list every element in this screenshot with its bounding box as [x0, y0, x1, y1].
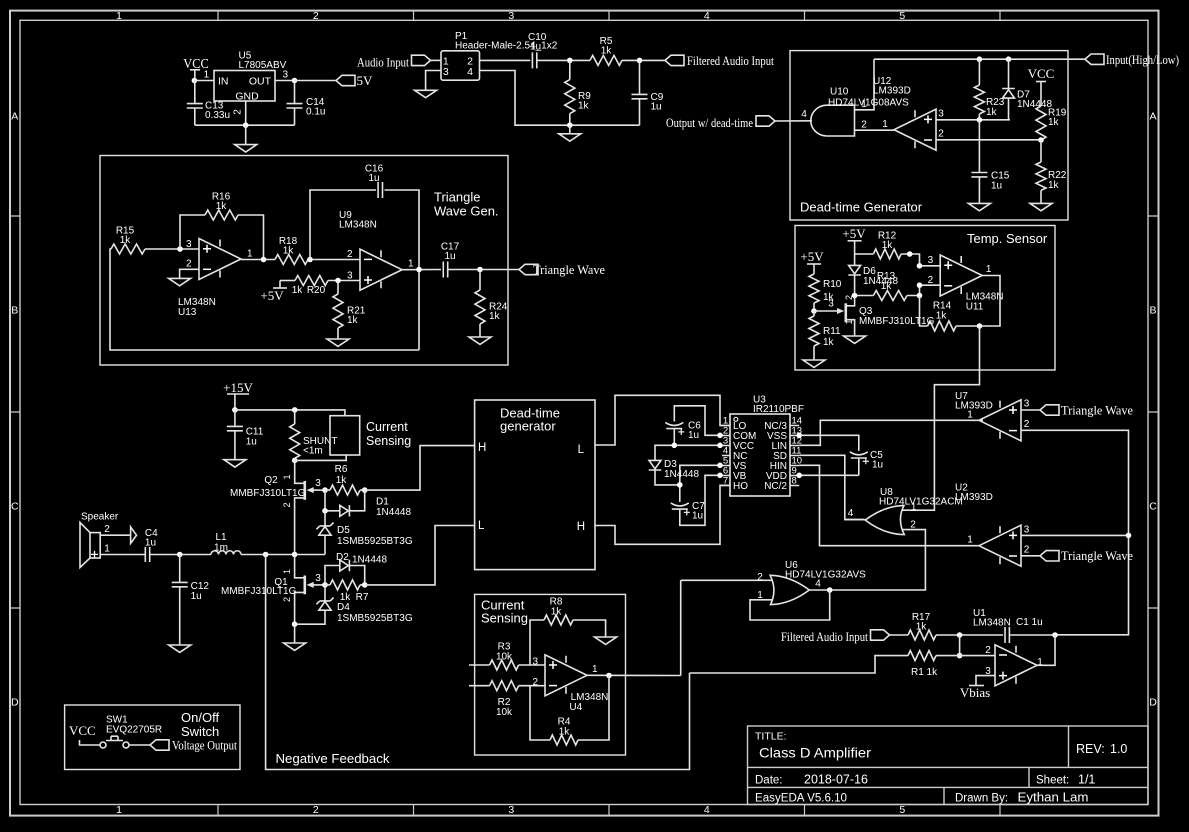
node R23 bottom junction: [977, 117, 983, 123]
svg-text:2: 2: [928, 275, 934, 286]
svg-text:A: A: [11, 111, 18, 123]
block box Triangle Wave Gen: [100, 156, 508, 366]
svg-text:1: 1: [104, 544, 110, 555]
svg-text:D5: D5: [337, 525, 350, 536]
node D1 branch junction: [322, 508, 328, 514]
resistor R15: [111, 226, 145, 255]
zener D5 1SMB5925BT3G: [316, 511, 412, 555]
node R6 out junction: [362, 487, 368, 493]
net flag Filtered Audio Input: [665, 53, 774, 68]
resistor SHUNT: [290, 410, 338, 461]
svg-text:1k: 1k: [551, 606, 563, 617]
svg-text:HD74LV1G32ACM: HD74LV1G32ACM: [879, 497, 963, 508]
svg-text:1: 1: [967, 535, 973, 546]
svg-text:1u: 1u: [368, 173, 379, 184]
wire +15V rail: [235, 410, 345, 416]
node U2 pin3 junction: [1126, 533, 1132, 539]
node temp out junction: [977, 323, 983, 329]
svg-text:Triangle Wave: Triangle Wave: [533, 262, 605, 277]
resistor R24: [475, 270, 508, 338]
svg-text:2: 2: [282, 597, 292, 602]
svg-text:1N4448: 1N4448: [664, 469, 699, 480]
wire U8 pin2 to U6 out: [830, 530, 926, 590]
svg-text:Vbias: Vbias: [960, 685, 990, 700]
wire U7 out to U3 LIN: [799, 420, 983, 445]
net flag Triangle Wave: [519, 262, 605, 277]
svg-text:3: 3: [1024, 524, 1030, 535]
power flag VCC: [183, 57, 209, 81]
ic U3 IR2110PBF: [730, 395, 804, 497]
svg-text:1u: 1u: [692, 511, 703, 522]
wire U3 HIN to U2 out: [799, 465, 981, 545]
svg-text:Triangle Wave: Triangle Wave: [1061, 548, 1133, 563]
svg-text:U13: U13: [178, 307, 197, 318]
wire U5 ground bus: [195, 124, 295, 126]
label On/Off Switch: [181, 710, 219, 739]
ground U13: [169, 278, 191, 285]
wire triangle gen feedback loop: [110, 249, 419, 350]
node R13 out junction: [917, 293, 923, 299]
svg-text:1N4448: 1N4448: [352, 555, 387, 566]
svg-text:2018-07-16: 2018-07-16: [804, 773, 868, 787]
node U9 plus junction: [335, 278, 341, 284]
node U3 VCC junction: [717, 443, 723, 449]
svg-text:3: 3: [938, 109, 944, 120]
net flag Output w dead-time: [666, 115, 775, 130]
svg-text:1u: 1u: [191, 591, 202, 602]
net flag 5V: [336, 73, 373, 88]
resistor R6: [330, 464, 360, 495]
svg-text:5: 5: [899, 804, 905, 816]
antenna flag speaker: [131, 527, 137, 543]
wire R15 to U13: [145, 248, 199, 250]
ground R21: [327, 339, 349, 346]
svg-text:4: 4: [801, 109, 807, 120]
wire R1 left to feedback: [690, 656, 909, 673]
capacitor C7: [671, 475, 720, 525]
node shunt bottom junction: [292, 458, 298, 464]
capacitor C17: [441, 242, 460, 278]
svg-text:L: L: [478, 520, 485, 532]
svg-text:1SMB5925BT3G: 1SMB5925BT3G: [337, 536, 413, 547]
node R12 out junction: [907, 251, 913, 257]
node feedback junction: [263, 552, 269, 558]
wire P1 pin2 to C10: [480, 59, 531, 61]
zener D4 1SMB5925BT3G: [295, 585, 413, 624]
svg-text:1k: 1k: [1048, 180, 1060, 191]
svg-text:3: 3: [315, 478, 321, 489]
svg-text:D: D: [11, 697, 19, 709]
node U3 VB junction: [717, 473, 723, 479]
svg-text:Dead-time Generator: Dead-time Generator: [800, 200, 923, 215]
wire node to pin2: [959, 635, 961, 656]
capacitor C1: [1005, 617, 1043, 643]
svg-text:2: 2: [861, 119, 867, 130]
capacitor C15: [971, 120, 1009, 204]
svg-text:+5V: +5V: [800, 249, 824, 264]
svg-text:1k: 1k: [936, 311, 948, 322]
op-amp U13 LM348N: [178, 239, 253, 319]
wire R3 to U4 pin3: [519, 664, 545, 666]
svg-text:3: 3: [928, 255, 934, 266]
resistor R14: [928, 301, 956, 332]
resistor R7: [325, 580, 369, 603]
svg-text:1: 1: [116, 10, 122, 22]
svg-text:Audio Input: Audio Input: [357, 54, 409, 69]
node U9 out junction: [416, 267, 422, 273]
capacitor C11: [227, 410, 264, 460]
svg-text:1k: 1k: [881, 281, 893, 292]
svg-text:U11: U11: [966, 302, 984, 313]
svg-text:1: 1: [844, 319, 854, 324]
svg-text:generator: generator: [500, 419, 556, 434]
capacitor C6: [665, 406, 720, 446]
wire R2 to U4 pin2: [519, 685, 545, 687]
svg-text:LM393D: LM393D: [955, 401, 993, 412]
wire U2 pin2 to flag: [1021, 555, 1040, 557]
svg-text:D2: D2: [336, 552, 349, 563]
svg-text:2: 2: [104, 524, 110, 535]
resistor R3: [469, 642, 519, 671]
node R18 out junction: [307, 257, 313, 263]
diode D1 1N4448: [325, 490, 411, 518]
svg-text:1u: 1u: [444, 251, 455, 262]
svg-text:1: 1: [986, 264, 992, 275]
net flag Voltage Output: [150, 737, 237, 752]
ground R22: [1030, 203, 1052, 210]
net flag Audio Input: [357, 54, 431, 69]
svg-text:3: 3: [532, 657, 538, 668]
wire U8 output to SD: [845, 519, 865, 521]
comparator U12 LM393D: [873, 76, 936, 150]
svg-text:U4: U4: [569, 702, 582, 713]
resistor R13: [855, 271, 907, 301]
capacitor C4: [145, 528, 158, 562]
svg-text:L: L: [578, 444, 585, 456]
node U13 out junction: [261, 257, 267, 263]
svg-text:1k: 1k: [559, 726, 571, 737]
node U11 pin2 junction: [917, 282, 923, 288]
svg-text:Voltage Output: Voltage Output: [172, 737, 237, 752]
svg-text:C: C: [1149, 501, 1157, 513]
block box Dead-time Generator: [790, 51, 1068, 220]
wire flag to R17: [890, 634, 909, 636]
svg-text:R11: R11: [823, 326, 841, 337]
wire R20 to U9 pin3: [328, 280, 360, 282]
label Triangle Wave Gen: [434, 190, 499, 219]
node U4 out junction: [606, 673, 612, 679]
or-gate U8 HD74LV1G32ACM: [848, 487, 963, 535]
label Current Sensing top: [366, 420, 411, 448]
block box Current Sensing bottom: [475, 594, 626, 755]
transistor Q2 MMBFJ310LT1G: [230, 460, 325, 554]
svg-text:4: 4: [704, 804, 710, 816]
transistor Q3 MMBFJ310LT1G: [837, 291, 935, 336]
svg-text:B: B: [11, 305, 18, 317]
wire U6 pin2 riser: [680, 580, 682, 675]
svg-text:2: 2: [313, 10, 319, 22]
node U3 VDD junction: [796, 473, 802, 479]
svg-text:MMBFJ310LT1G: MMBFJ310LT1G: [221, 586, 297, 597]
svg-text:3: 3: [315, 573, 321, 584]
power flag +5V R20: [260, 281, 287, 304]
inductor L1: [211, 532, 241, 555]
wire U5 out: [275, 80, 295, 82]
wire R1 to U1 pin2: [936, 655, 995, 657]
svg-text:U10: U10: [830, 87, 849, 98]
svg-text:B: B: [1149, 305, 1156, 317]
resistor R11: [809, 311, 841, 360]
resistor R17: [908, 612, 936, 640]
wire P1 pin3 to ground: [426, 71, 441, 91]
resistor R23: [974, 59, 1004, 120]
node C9 top junction: [637, 58, 643, 64]
wire R13 to U11 pin2: [907, 285, 940, 295]
net flag Triangle Wave U7: [1040, 402, 1133, 417]
capacitor C10: [528, 32, 547, 68]
node FET mid junction: [292, 552, 298, 558]
comparator U2 LM393D: [955, 483, 1030, 567]
wire U2 pin3: [1021, 534, 1129, 536]
pin 2 U5: [233, 101, 246, 125]
wire U10 pin1 riser: [855, 59, 875, 110]
svg-text:0.1u: 0.1u: [306, 107, 325, 118]
svg-text:C1 1u: C1 1u: [1016, 617, 1043, 628]
and-gate U10 HD74LV1G08AVS: [811, 87, 909, 137]
svg-text:Class D Amplifier: Class D Amplifier: [759, 745, 871, 761]
node U6 out junction: [827, 587, 833, 593]
svg-text:REV:: REV:: [1076, 742, 1105, 756]
power flag +5V D6: [842, 226, 866, 254]
wire U7 pin3 to flag: [1021, 409, 1040, 411]
svg-text:1k: 1k: [283, 246, 295, 257]
regulator U5 L7805ABV: [214, 51, 287, 103]
diode D3 1N4448: [649, 459, 700, 485]
speaker SPK: [80, 511, 119, 567]
svg-text:Temp. Sensor: Temp. Sensor: [967, 231, 1048, 246]
resistor R1: [908, 651, 938, 678]
wire U11 pin2 riser to R14: [920, 296, 928, 327]
node R23 top junction: [977, 56, 983, 62]
svg-text:R1 1k: R1 1k: [911, 667, 938, 678]
wire L drive to dead-time: [365, 526, 475, 585]
svg-text:2: 2: [186, 259, 192, 270]
svg-text:R10: R10: [823, 279, 842, 290]
node C6 bottom junction: [672, 443, 678, 449]
wire U12 pin3 net: [936, 119, 1010, 121]
svg-text:1u: 1u: [530, 42, 541, 53]
wire L1 to FET node: [241, 554, 325, 556]
node U3 COM junction: [717, 433, 723, 439]
svg-text:Speaker: Speaker: [81, 511, 119, 522]
wire U6 pin2 input: [681, 579, 773, 581]
node D3 bottom junction: [677, 482, 683, 488]
svg-text:2: 2: [532, 677, 538, 688]
wire U4 output: [587, 674, 681, 676]
wire dead-time L output to U3 LO: [595, 395, 730, 445]
svg-text:2: 2: [313, 804, 319, 816]
switch SW1 EVQ22705R: [69, 715, 162, 749]
svg-text:1k: 1k: [120, 235, 132, 246]
power flag +15V: [223, 380, 253, 410]
wire shunt bottom to sense box: [295, 455, 347, 460]
svg-text:1: 1: [204, 70, 210, 81]
wire U13 pin2 to ground: [180, 269, 199, 278]
capacitor C9: [632, 60, 664, 125]
svg-text:1k: 1k: [601, 46, 613, 57]
wire U13 output: [241, 259, 275, 261]
svg-text:TITLE:: TITLE:: [755, 731, 787, 743]
wire U7 pin2 chain: [1021, 430, 1129, 635]
or-gate U6 HD74LV1G32AVS: [757, 560, 866, 605]
svg-text:10k: 10k: [496, 651, 513, 662]
svg-text:Wave Gen.: Wave Gen.: [434, 204, 499, 219]
svg-text:H: H: [478, 442, 486, 454]
wire R17 to U1 node: [936, 634, 1003, 636]
svg-text:1k: 1k: [216, 201, 228, 212]
diode D7 1N4448: [1002, 59, 1052, 120]
ground filter: [559, 125, 581, 141]
wire U3 VSS to C5: [799, 435, 859, 451]
svg-text:On/Off: On/Off: [181, 710, 219, 725]
svg-text:3: 3: [508, 10, 514, 22]
block box Temp Sensor: [795, 226, 1055, 371]
svg-text:1k: 1k: [882, 240, 894, 251]
wire C10 to node: [537, 59, 590, 61]
svg-text:1k: 1k: [292, 285, 304, 296]
svg-text:1: 1: [911, 502, 917, 513]
svg-text:1.0: 1.0: [1110, 742, 1127, 756]
svg-text:3: 3: [508, 804, 514, 816]
node R7 out junction: [362, 582, 368, 588]
wire dead-time H output to U3 HO: [595, 485, 730, 544]
resistor R22: [1036, 140, 1067, 203]
resistor R19: [1036, 106, 1067, 140]
wire C4 to L1: [150, 554, 211, 556]
wire U11 output feedback: [956, 276, 1000, 327]
svg-text:Triangle: Triangle: [434, 190, 480, 205]
svg-text:2: 2: [938, 129, 944, 140]
wire to 5V flag: [295, 80, 337, 82]
wire dead-time top rail: [874, 58, 1085, 60]
wire Audio Input to P1: [431, 59, 442, 61]
svg-text:1k: 1k: [823, 337, 835, 348]
wire VCC net to D3: [655, 445, 720, 460]
resistor R18: [275, 236, 308, 265]
svg-text:1k: 1k: [336, 475, 348, 486]
svg-text:1N4448: 1N4448: [376, 507, 411, 518]
net flag Input(High/Low): [1085, 52, 1179, 67]
svg-text:1k: 1k: [347, 315, 359, 326]
node U11 pin3 junction: [917, 263, 923, 269]
svg-text:1: 1: [882, 119, 888, 130]
wire P1 pin4 to filter ground bus: [480, 71, 640, 126]
ground U5: [235, 125, 257, 152]
svg-text:1u: 1u: [872, 460, 883, 471]
node Q1 gate junction: [322, 582, 328, 588]
svg-text:H: H: [577, 521, 585, 533]
svg-text:1/1: 1/1: [1078, 773, 1095, 787]
svg-text:Current: Current: [366, 420, 408, 434]
wire negative feedback: [266, 555, 690, 770]
svg-text:1u: 1u: [688, 430, 699, 441]
svg-text:4: 4: [467, 66, 473, 78]
svg-text:+5V: +5V: [842, 226, 866, 241]
node R10 R11 junction: [811, 308, 817, 314]
node filter gnd junction: [567, 122, 573, 128]
capacitor C14: [287, 81, 326, 126]
wire U12 pin2 net: [936, 139, 1041, 141]
svg-text:EVQ22705R: EVQ22705R: [106, 725, 162, 736]
wire R12 to U11 pin3: [901, 254, 940, 266]
resistor R2: [469, 681, 519, 718]
svg-text:D1: D1: [376, 497, 389, 508]
node +15V junction: [232, 407, 238, 413]
wire U6 pin1 loop: [750, 590, 830, 620]
svg-text:5V: 5V: [357, 73, 374, 88]
node U13 plus junction: [177, 246, 183, 252]
op-amp U9 LM348N: [339, 210, 414, 290]
comparator U7 LM393D: [955, 391, 1030, 441]
wire R10 to Q3 gate: [814, 310, 837, 312]
svg-text:IN: IN: [218, 75, 229, 87]
node Q2 gate junction: [322, 487, 328, 493]
node Q1 source junction: [292, 621, 298, 627]
wire U3 VDD to C5 bottom: [799, 474, 859, 476]
svg-text:+15V: +15V: [223, 380, 253, 395]
svg-text:1u: 1u: [991, 180, 1002, 191]
ground Q3: [844, 336, 866, 343]
svg-text:2: 2: [233, 109, 244, 115]
svg-text:R6: R6: [335, 464, 348, 475]
svg-text:C: C: [11, 501, 19, 513]
svg-text:L1: L1: [215, 532, 227, 543]
net flag Filtered Audio Input bottom: [781, 629, 890, 644]
svg-text:NC/2: NC/2: [764, 481, 787, 492]
wire R5 to node: [622, 59, 665, 61]
svg-text:1: 1: [282, 474, 292, 479]
resistor R21: [333, 281, 366, 340]
resistor R20: [280, 276, 328, 297]
label Current Sensing bottom: [481, 598, 528, 626]
svg-text:1: 1: [247, 248, 253, 259]
wire speaker pin1 to C4: [100, 554, 145, 556]
block box On/Off Switch: [65, 705, 240, 770]
node R24 top junction: [477, 267, 483, 273]
node D7 top junction: [1006, 56, 1012, 62]
wire temp sensor output to U8 pin1: [903, 326, 980, 510]
resistor R8: [530, 597, 606, 666]
ground P1: [415, 90, 437, 97]
svg-text:1u: 1u: [246, 436, 257, 447]
svg-text:EasyEDA V5.6.10: EasyEDA V5.6.10: [755, 793, 847, 805]
svg-text:1k: 1k: [916, 622, 928, 633]
power flag VCC dead-time: [1028, 66, 1055, 106]
svg-text:1: 1: [967, 409, 973, 420]
transistor Q1 MMBFJ310LT1G: [221, 555, 325, 625]
svg-text:VCC: VCC: [1028, 66, 1055, 81]
diode D6 1N4448: [848, 254, 898, 291]
svg-text:0.33u: 0.33u: [205, 110, 230, 121]
wire flag to U10 pin4: [775, 120, 812, 122]
connector current sense box: [330, 416, 360, 455]
svg-text:IR2110PBF: IR2110PBF: [753, 404, 804, 415]
wire U3 SD to U8 out: [799, 455, 863, 519]
svg-text:Negative Feedback: Negative Feedback: [276, 752, 391, 766]
block dead-time generator H L: [475, 400, 595, 570]
op-amp U4 LM348N: [532, 655, 608, 713]
svg-text:+5V: +5V: [260, 288, 284, 303]
